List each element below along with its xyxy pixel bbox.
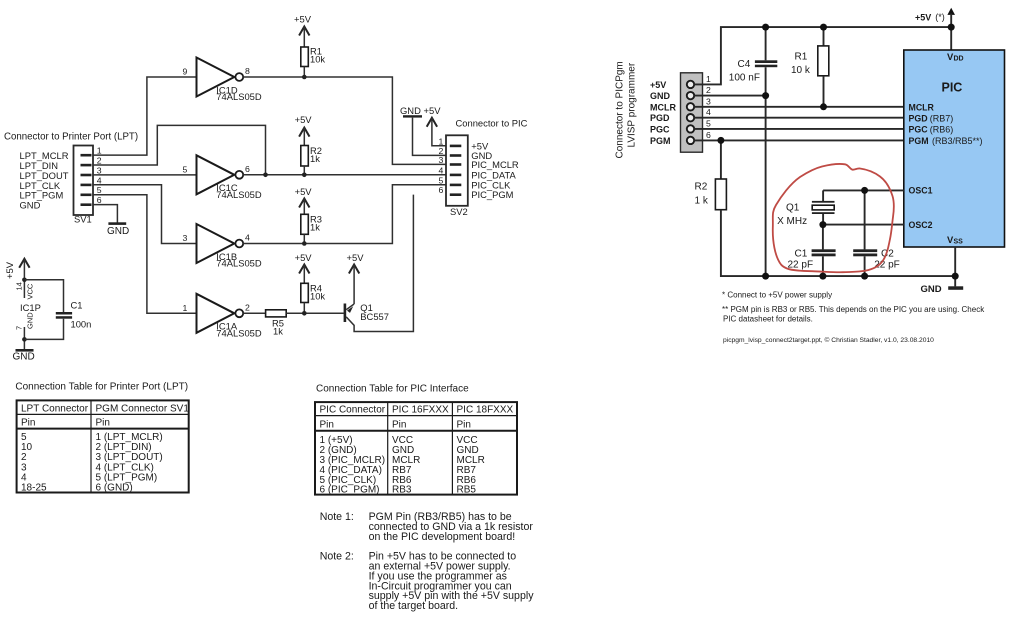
resistor R5	[266, 310, 344, 337]
table title: Connection Table for PIC Interface	[316, 384, 469, 395]
svg-text:Connector to Printer Port (LPT: Connector to Printer Port (LPT)	[4, 132, 138, 143]
note: connect to +5V	[722, 290, 832, 299]
svg-text:Note 2:: Note 2:	[320, 551, 354, 563]
svg-text:PGM Connector SV1: PGM Connector SV1	[96, 403, 190, 414]
connector to programmer (gray)	[681, 73, 712, 152]
svg-text:(*): (*)	[935, 12, 945, 22]
wire OSC1	[823, 189, 904, 191]
svg-text:14: 14	[15, 282, 24, 290]
resistor R1	[301, 46, 326, 78]
red marker around oscillator	[773, 164, 894, 272]
junction dot rail/C2	[861, 273, 868, 280]
svg-text:SV1: SV1	[74, 213, 92, 224]
label: Connector to Printer Port (LPT)	[4, 132, 138, 143]
svg-text:GND: GND	[26, 312, 35, 329]
svg-text:GND: GND	[107, 226, 129, 237]
svg-text:on the PIC development board!: on the PIC development board!	[369, 531, 516, 543]
svg-text:2: 2	[97, 156, 102, 166]
resistor R2	[301, 145, 322, 175]
svg-text:MCLR: MCLR	[650, 102, 676, 112]
svg-text:X MHz: X MHz	[777, 216, 807, 227]
svg-text:+5V: +5V	[650, 80, 666, 90]
junction dot bus/VDD	[948, 24, 955, 31]
svg-text:Connector to PICPgm: Connector to PICPgm	[615, 61, 626, 158]
svg-text:9: 9	[183, 67, 188, 77]
svg-text:DD: DD	[954, 56, 964, 63]
junction dot OSC2/crystal	[819, 221, 826, 228]
svg-text:10k: 10k	[310, 54, 325, 65]
junction dot feedback/IC1C	[263, 173, 268, 178]
note: PGM pin RB3/RB5	[722, 305, 985, 323]
svg-text:(RB6): (RB6)	[930, 125, 954, 135]
svg-text:SV2: SV2	[450, 206, 468, 217]
SV1 signal labels	[20, 150, 69, 211]
junction dot R2/PGM	[717, 137, 724, 144]
svg-text:R1: R1	[795, 51, 808, 62]
svg-text:+5V: +5V	[347, 252, 365, 263]
svg-text:8: 8	[245, 66, 250, 76]
svg-text:SS: SS	[954, 239, 964, 246]
svg-text:Pin: Pin	[320, 419, 334, 430]
+5V supply for SV2	[424, 105, 451, 146]
svg-text:C4: C4	[738, 59, 751, 70]
svg-text:PGD: PGD	[650, 113, 670, 123]
svg-text:5: 5	[706, 118, 711, 128]
svg-text:PGD: PGD	[909, 113, 928, 123]
svg-text:1k: 1k	[310, 222, 320, 233]
svg-text:5: 5	[183, 165, 188, 175]
svg-text:(RB7): (RB7)	[930, 113, 954, 123]
ground (right)	[921, 284, 964, 295]
svg-text:IC1P: IC1P	[20, 302, 41, 313]
junction dot R4/R5/Q1	[302, 311, 307, 316]
svg-text:OSC1: OSC1	[909, 186, 933, 196]
svg-text:GND: GND	[400, 105, 421, 116]
svg-text:+5V: +5V	[295, 252, 313, 263]
svg-text:Q1: Q1	[786, 202, 800, 213]
svg-text:6: 6	[706, 130, 711, 140]
svg-text:1: 1	[706, 74, 711, 84]
svg-text:VCC: VCC	[26, 283, 35, 299]
svg-text:3: 3	[97, 165, 102, 175]
svg-text:100n: 100n	[71, 319, 92, 330]
svg-text:PGC: PGC	[909, 125, 929, 135]
svg-text:74ALS05D: 74ALS05D	[216, 258, 262, 269]
wire OSC2	[823, 224, 904, 226]
svg-text:+5V: +5V	[915, 13, 931, 23]
svg-text:+5V: +5V	[424, 105, 442, 116]
svg-text:* Connect to +5V power supply: * Connect to +5V power supply	[722, 290, 832, 299]
svg-text:PGM: PGM	[909, 136, 929, 146]
+5V supply for R2	[295, 114, 313, 145]
svg-text:C1: C1	[795, 249, 808, 260]
wire pin4 to PIC PGD	[694, 117, 904, 119]
svg-text:3: 3	[706, 96, 711, 106]
junction dot R1/IC1D	[302, 75, 307, 80]
+5V supply for Q1 emitter	[347, 252, 365, 304]
label: Connector to PIC	[456, 117, 528, 128]
svg-text:PIC datasheet for details.: PIC datasheet for details.	[723, 314, 813, 323]
junction dot C4/GND pin2	[762, 92, 769, 99]
+5V (*) supply	[915, 8, 955, 50]
TABLES	[15, 382, 534, 612]
svg-text:1: 1	[439, 136, 444, 146]
inverter gate IC1A 74ALS05D	[183, 294, 262, 339]
junction dot rail/C4	[762, 273, 769, 280]
wire IC1C output to SV2 pin4	[243, 174, 450, 176]
SV2 signal labels	[471, 140, 519, 200]
capacitor C2 (22 pF)	[853, 190, 900, 276]
resistor R2 (1 k)	[695, 140, 956, 276]
programmer pin labels	[650, 80, 676, 146]
label: Connector to PICPgm (rotated)	[615, 61, 638, 158]
table title: Connection Table for Printer Port (LPT)	[15, 382, 188, 393]
svg-text:PGM: PGM	[650, 136, 671, 146]
svg-text:2: 2	[706, 85, 711, 95]
svg-text:100 nF: 100 nF	[729, 72, 760, 83]
LEFT SCHEMATIC	[4, 14, 528, 363]
wire pin1 to +5V bus	[694, 27, 951, 84]
resistor R4	[301, 283, 326, 314]
svg-text:RB3: RB3	[392, 485, 412, 496]
svg-text:** PGM pin is RB3 or RB5. This: ** PGM pin is RB3 or RB5. This depends o…	[722, 305, 985, 314]
svg-text:Pin: Pin	[392, 419, 406, 430]
svg-text:RB5: RB5	[457, 485, 477, 496]
svg-text:GND: GND	[13, 352, 35, 363]
svg-text:4: 4	[245, 233, 250, 243]
svg-text:10 k: 10 k	[791, 65, 811, 76]
svg-text:+5V: +5V	[295, 114, 313, 125]
PIC block	[904, 50, 1005, 247]
table: PIC interface	[315, 402, 517, 496]
svg-text:+5V: +5V	[294, 14, 312, 25]
svg-text:+5V: +5V	[295, 186, 313, 197]
+5V supply for R3	[295, 186, 313, 214]
connector SV1	[74, 146, 102, 225]
ground under SV1	[107, 222, 129, 237]
wire SV1 pin5 to IC1A input	[93, 195, 197, 314]
junction dot bus/C4	[762, 24, 769, 31]
svg-text:6: 6	[245, 164, 250, 174]
svg-text:PIC Connector: PIC Connector	[320, 405, 386, 416]
svg-text:6: 6	[439, 185, 444, 195]
svg-text:PIC: PIC	[942, 81, 963, 95]
junction dot R1/MCLR	[820, 103, 827, 110]
wire IC1D output to SV2 pin3	[243, 77, 450, 164]
svg-text:Connection Table for PIC Inter: Connection Table for PIC Interface	[316, 384, 469, 395]
svg-text:1: 1	[97, 146, 102, 156]
svg-text:4: 4	[97, 175, 102, 185]
svg-text:1 k: 1 k	[695, 196, 709, 207]
svg-text:74ALS05D: 74ALS05D	[216, 91, 262, 102]
svg-text:4: 4	[439, 165, 444, 175]
inverter gate IC1B 74ALS05D	[183, 224, 262, 269]
IC1P power block +5V	[4, 259, 41, 350]
svg-text:of the target board.: of the target board.	[369, 600, 459, 612]
wire SV1 pin4 to IC1B input	[93, 185, 197, 244]
wire SV1 pin6 to ground	[93, 205, 117, 223]
svg-text:GND: GND	[921, 284, 942, 295]
junction dot bus/R1	[820, 24, 827, 31]
svg-text:PIC_MCLR: PIC_MCLR	[471, 159, 519, 170]
svg-text:BC557: BC557	[360, 311, 389, 322]
ground symbol above SV2	[400, 105, 450, 156]
wire IC1A output to R5	[243, 312, 265, 314]
svg-text:Pin: Pin	[96, 418, 110, 429]
wire IC1B output to SV2 pin5	[243, 185, 450, 244]
wire SV1 pin2 to IC1C output node	[93, 125, 266, 174]
svg-text:GND: GND	[650, 91, 671, 101]
svg-text:Pin: Pin	[457, 419, 471, 430]
inverter gate IC1C 74ALS05D	[183, 155, 262, 200]
svg-text:5: 5	[97, 185, 102, 195]
svg-text:6: 6	[97, 195, 102, 205]
svg-text:picpgm_lvisp_connect2target.pp: picpgm_lvisp_connect2target.ppt, © Chris…	[723, 336, 934, 344]
svg-text:5: 5	[439, 175, 444, 185]
capacitor C1 (22 pF)	[788, 225, 836, 277]
svg-text:3: 3	[439, 155, 444, 165]
junction dot rail/C1	[819, 273, 826, 280]
svg-text:10k: 10k	[310, 291, 325, 302]
wire pin2 to GND line	[694, 95, 765, 97]
svg-text:1k: 1k	[273, 326, 283, 337]
svg-text:C1: C1	[71, 300, 83, 311]
RIGHT SCHEMATIC	[615, 8, 1005, 344]
crystal Q1 (X MHz)	[777, 190, 834, 226]
wire pin3 to PIC MCLR	[694, 106, 904, 108]
svg-text:1k: 1k	[310, 153, 320, 164]
svg-text:LPT Connector: LPT Connector	[21, 403, 89, 414]
wire Vss to ground	[954, 247, 956, 286]
wire SV1 pin1 to IC1D input	[93, 77, 197, 155]
svg-text:MCLR: MCLR	[909, 102, 935, 112]
svg-text:(RB3/RB5**): (RB3/RB5**)	[932, 136, 983, 146]
note 2	[320, 551, 534, 613]
svg-text:7: 7	[15, 326, 24, 330]
svg-text:PIC 16FXXX: PIC 16FXXX	[392, 405, 449, 416]
transistor Q1 BC557	[344, 195, 414, 332]
svg-text:74ALS05D: 74ALS05D	[216, 189, 262, 200]
+5V supply for R4	[295, 252, 313, 283]
wire pin5 to PIC PGC	[694, 128, 904, 130]
svg-text:Connector to PIC: Connector to PIC	[456, 117, 528, 128]
svg-text:LVISP programmer: LVISP programmer	[627, 62, 638, 147]
capacitor C4 (100 nF)	[729, 27, 778, 276]
resistor R1 (10 k)	[791, 27, 829, 107]
svg-text:R2: R2	[695, 182, 708, 193]
svg-text:1: 1	[183, 303, 188, 313]
resistor R3	[301, 214, 322, 244]
junction dot R3/IC1B	[302, 241, 307, 246]
svg-text:PGC: PGC	[650, 124, 670, 134]
svg-text:6 (PIC_PGM): 6 (PIC_PGM)	[320, 485, 380, 496]
svg-text:2: 2	[245, 302, 250, 312]
svg-text:+5V: +5V	[4, 261, 15, 279]
svg-text:74ALS05D: 74ALS05D	[216, 328, 262, 339]
svg-text:18-25: 18-25	[21, 483, 47, 494]
svg-text:Connection Table for Printer P: Connection Table for Printer Port (LPT)	[15, 382, 188, 393]
svg-text:PIC_PGM: PIC_PGM	[471, 189, 513, 200]
junction dot R2/IC1C	[302, 173, 307, 178]
ground IC1P	[13, 349, 35, 363]
table: printer port	[17, 400, 190, 493]
wire SV1 pin3 to IC1C input	[93, 174, 197, 176]
capacitor C1 (100n)	[24, 280, 91, 340]
junction dot rail/Vss	[952, 273, 959, 280]
inverter gate IC1D 74ALS05D	[183, 58, 262, 103]
+5V supply for R1	[294, 14, 312, 48]
svg-text:4: 4	[706, 107, 711, 117]
wire pin6 to PIC PGM	[694, 139, 904, 141]
svg-text:GND: GND	[20, 200, 41, 211]
svg-text:Note 1:: Note 1:	[320, 511, 354, 523]
svg-text:Pin: Pin	[21, 418, 35, 429]
footer credit	[723, 336, 934, 344]
svg-text:3: 3	[183, 233, 188, 243]
svg-text:PIC 18FXXX: PIC 18FXXX	[457, 405, 514, 416]
junction dot OSC1/C2	[861, 187, 868, 194]
svg-text:6 (GND): 6 (GND)	[96, 483, 133, 494]
connector SV2	[439, 135, 468, 217]
note 1	[320, 511, 534, 543]
svg-text:OSC2: OSC2	[909, 220, 933, 230]
